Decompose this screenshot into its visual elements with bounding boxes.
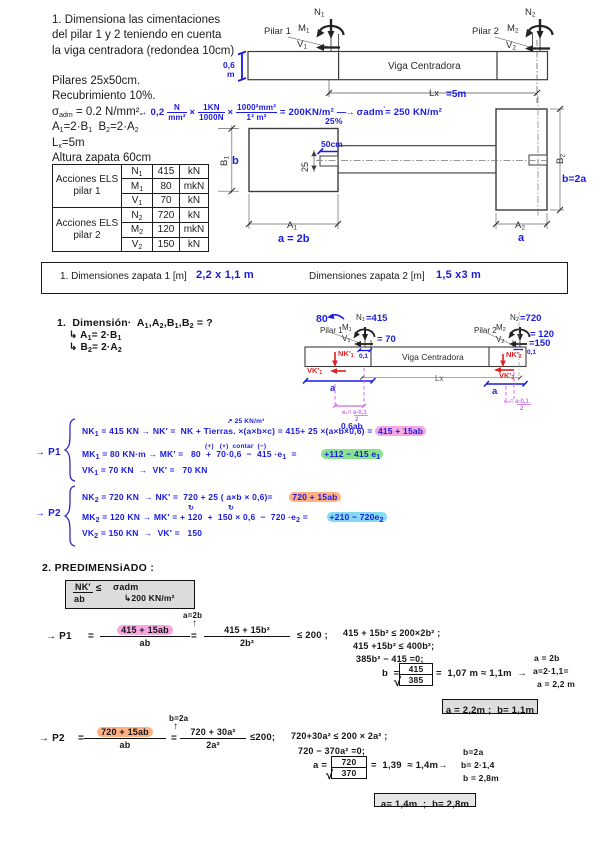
svg-text:V2: V2	[506, 40, 516, 52]
svg-text:2: 2	[520, 406, 524, 412]
P2 answer box	[374, 793, 476, 807]
diagram 2: beam with applied loads	[280, 300, 600, 435]
sigma adm handwritten conversion line	[138, 103, 442, 122]
A1 dimension	[246, 194, 341, 229]
B1 dimension	[218, 125, 239, 194]
dash dot axis pilar 2	[518, 312, 520, 376]
svg-text:Viga Centradora: Viga Centradora	[402, 352, 464, 362]
svg-text:N2: N2	[510, 313, 519, 323]
printed problem statement	[52, 13, 234, 59]
P1 calculation	[46, 631, 72, 642]
answer strip box	[41, 262, 568, 294]
N2 load arrow	[539, 19, 541, 33]
P1 equations block	[35, 447, 61, 458]
svg-text:50cm: 50cm	[321, 139, 343, 149]
svg-text:VK′2: VK′2	[499, 371, 514, 381]
pilar 2 stubs	[532, 34, 534, 52]
PLAN VIEW	[249, 109, 547, 210]
svg-text:A2: A2	[515, 220, 525, 232]
blue 0,1 dim marks	[358, 349, 524, 353]
blue handwritten values	[316, 313, 554, 431]
svg-text:V2: V2	[496, 335, 504, 345]
zapata 1 plan rect	[249, 129, 338, 192]
svg-text:Pilar 1: Pilar 1	[264, 26, 291, 37]
plan centre lines	[316, 160, 550, 162]
pilar 1 stubs above beam	[330, 34, 332, 52]
A2 dimension	[493, 213, 550, 229]
printed labels	[320, 313, 519, 383]
red VK' arrows	[335, 370, 346, 372]
svg-text:Pilar 2: Pilar 2	[474, 326, 497, 335]
pilar 2 plan rect	[529, 155, 547, 165]
svg-text:= 70: = 70	[377, 334, 396, 345]
N1 load arrow	[316, 19, 553, 52]
load arrows pilar 2	[509, 327, 530, 347]
svg-text:=150: =150	[529, 338, 550, 349]
V2 shear arrow	[531, 47, 550, 49]
svg-text:Viga Centradora: Viga Centradora	[388, 61, 461, 72]
viga strip	[338, 145, 496, 147]
P2 calculation	[39, 733, 65, 744]
svg-text:B1: B1	[219, 156, 231, 166]
svg-text:N1: N1	[356, 313, 365, 323]
svg-text:Lx: Lx	[429, 88, 439, 99]
svg-text:B2: B2	[555, 154, 567, 164]
beam elevation rectangle	[248, 52, 548, 80]
Lx dimension line	[326, 80, 540, 97]
pilar 1 plan rect	[320, 156, 338, 166]
actions table	[52, 164, 209, 253]
svg-text:a: a	[492, 386, 498, 397]
handwritten section 1	[57, 317, 213, 329]
svg-text:b: b	[232, 155, 239, 167]
svg-text:=415: =415	[366, 313, 388, 324]
magenta e labels	[342, 399, 530, 423]
load arrows pilar 1	[354, 327, 375, 347]
B2 dimension	[550, 106, 564, 213]
Lx dimension	[360, 376, 522, 380]
blue a dimension lines	[303, 378, 528, 387]
svg-text:a: a	[518, 232, 525, 244]
labels elevation (printed)	[264, 7, 536, 99]
M1 moment arc	[320, 26, 344, 35]
svg-text:a = 2b: a = 2b	[278, 233, 310, 245]
section 2 predimensionado	[42, 562, 154, 574]
svg-text:0,1: 0,1	[527, 349, 536, 356]
svg-text:0,1: 0,1	[359, 353, 368, 360]
25 dimension	[312, 150, 316, 172]
svg-text:Lx: Lx	[435, 374, 443, 383]
svg-text:M1: M1	[298, 23, 310, 35]
top elevation + plan diagram	[210, 0, 600, 260]
svg-text:M2: M2	[496, 323, 506, 333]
50cm blue dimension	[318, 149, 339, 155]
svg-text:80: 80	[316, 313, 328, 325]
svg-text:N1: N1	[314, 7, 325, 19]
magenta e1 dashed projection	[335, 368, 514, 406]
svg-text:V1: V1	[342, 334, 350, 344]
leader lines	[288, 37, 329, 47]
pilar 2 axis dashed line	[536, 40, 538, 103]
svg-text:=5m: =5m	[446, 89, 466, 100]
svg-text:M2: M2	[507, 23, 519, 35]
P2 equations block	[35, 508, 61, 519]
blue 80 moment arrow	[330, 315, 344, 319]
pilar stubs	[364, 340, 366, 347]
svg-text:25: 25	[300, 162, 310, 172]
svg-text:m: m	[227, 69, 235, 79]
M2 moment arc	[529, 26, 553, 35]
svg-text:A1: A1	[287, 220, 297, 232]
zapata 2 plan rect	[496, 109, 547, 210]
svg-text:V1: V1	[297, 39, 307, 51]
svg-text:b=2a: b=2a	[562, 173, 586, 185]
svg-text:Pilar 2: Pilar 2	[472, 26, 499, 37]
beam rect	[305, 347, 526, 367]
svg-text:Pilar 1: Pilar 1	[320, 326, 343, 335]
red NK' arrows	[330, 352, 514, 374]
V1 shear arrow	[322, 46, 340, 48]
handwritten blue 0,6 m bracket	[238, 52, 246, 82]
svg-text:M1: M1	[342, 323, 352, 333]
svg-text:N2: N2	[525, 7, 536, 19]
svg-text:VK′1: VK′1	[307, 366, 322, 376]
P1 answer box	[442, 699, 538, 714]
svg-text:=720: =720	[520, 313, 541, 324]
